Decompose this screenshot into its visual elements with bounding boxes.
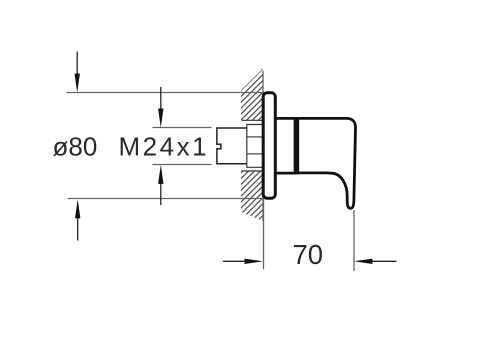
wall hatching upper band	[241, 69, 263, 121]
70 dim arrow right (points left)	[354, 259, 397, 264]
wall hatching lower band	[241, 171, 263, 221]
wall right face line	[262, 71, 264, 221]
nut facet line top	[247, 136, 263, 138]
ext line 70 right	[353, 210, 355, 271]
ext line M24 top	[153, 127, 212, 129]
valve body top line	[276, 117, 296, 120]
flange (escutcheon ø80)	[263, 93, 275, 198]
wall hole top edge	[242, 119, 264, 121]
nut facet line bottom	[247, 153, 263, 155]
ext line 70 left	[263, 199, 265, 270]
wall hole bottom edge	[242, 170, 264, 172]
arrow M24 bottom (up)	[158, 165, 163, 205]
valve body bottom line	[276, 172, 296, 175]
arrow ø80 top (down)	[75, 52, 80, 93]
arrow M24 top (down)	[158, 87, 163, 128]
ext line ø80 bottom	[68, 198, 263, 200]
svg-text:ø80: ø80	[53, 132, 98, 162]
handle base vertical	[294, 117, 300, 174]
70 dim arrow left (points right)	[223, 259, 263, 264]
threaded body (M24x1) with notch on left edge	[217, 128, 247, 164]
ext line ø80 top	[67, 92, 265, 94]
ext line M24 bottom	[153, 164, 212, 166]
arrow ø80 bottom (up)	[75, 199, 80, 240]
svg-text:70: 70	[293, 239, 324, 270]
handle lever outline	[296, 118, 355, 208]
nut behind wall	[247, 125, 263, 168]
svg-text:M24x1: M24x1	[119, 132, 210, 162]
